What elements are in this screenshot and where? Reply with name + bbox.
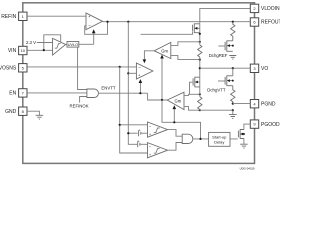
node delay input (199, 138, 201, 140)
node lower Gm bias junction (161, 99, 163, 101)
wire VOSNS rail down to window comparator (120, 67, 148, 153)
svg-text:VO: VO (261, 66, 268, 72)
svg-text:DchgREF: DchgREF (209, 53, 228, 58)
wire REFIN to buffer + input (27, 15, 86, 17)
wire upper Gm fork bottom (171, 56, 200, 60)
node PGND wire tap (232, 103, 234, 105)
wire VO line to pin (200, 67, 251, 69)
wire VIN to comparator (27, 49, 53, 51)
wire buffer feedback loop (85, 22, 108, 35)
wire lower Gm fork top (184, 94, 200, 95)
node upper comp tap (119, 124, 121, 126)
wire REFBUF rail down to window comparator (128, 22, 137, 145)
ground DchgREF (229, 56, 236, 60)
offset battery upper (128, 128, 147, 136)
svg-text:+: + (149, 153, 151, 157)
IC block outline (23, 3, 255, 164)
node EA enable on ENVTT (139, 92, 141, 94)
resistor R2 sense (sink) (198, 97, 202, 110)
svg-text:+: + (139, 128, 141, 132)
pin EN 7 (9, 89, 27, 97)
svg-text:REFIN: REFIN (1, 14, 16, 20)
comparator window lower (148, 143, 168, 158)
wire to PGND pin (233, 103, 251, 105)
wire delay to PGOOD FET gate (230, 138, 237, 140)
wire GND pin to ground (27, 111, 39, 115)
pin VIN 10 (8, 46, 27, 54)
amp Gm sink (lower, left-pointing) (167, 92, 184, 109)
wire node to ground (232, 110, 234, 114)
svg-text:Start-up: Start-up (212, 134, 227, 139)
pin REFIN 1 (1, 12, 27, 20)
svg-text:VLDOIN: VLDOIN (261, 6, 280, 12)
AND gate ENVTT (87, 89, 99, 98)
svg-text:Gm: Gm (161, 49, 168, 54)
node fork top on bus (199, 41, 201, 43)
op-amp U1 reference buffer (86, 13, 103, 30)
svg-text:ENVTT: ENVTT (101, 86, 115, 91)
node fork bottom on bus (199, 59, 201, 61)
node VIN-box junction (43, 49, 45, 51)
wire Q5 source to ground (243, 139, 245, 145)
ground PGOOD (240, 144, 248, 148)
wire R1 to VO node (199, 57, 201, 77)
svg-text:REFOUT: REFOUT (261, 20, 280, 26)
ground symbol GND pin (36, 115, 44, 119)
wire comparator to UVLO box (66, 44, 67, 46)
node lower Gm bias on rail (173, 121, 175, 123)
resistor R1 sense (source) (198, 45, 202, 57)
svg-text:VOSNS: VOSNS (0, 66, 17, 72)
svg-text:DchgVTT: DchgVTT (207, 88, 226, 93)
resistor R3 DchgVTT (231, 86, 235, 104)
svg-text:VIN: VIN (8, 48, 17, 54)
transistor Q3 DchgVTT FET (218, 68, 234, 86)
pin VOSNS 5 (0, 64, 27, 72)
comparator window upper (148, 122, 168, 137)
node buffer output (106, 21, 108, 23)
node lower fork bottom on bus (199, 109, 201, 111)
svg-text:+: + (149, 133, 151, 137)
node VO junction left (199, 67, 201, 69)
wire upper FET gate drive (141, 32, 193, 35)
wire upper comp output (168, 130, 183, 137)
wire Q1 source down (199, 24, 201, 45)
svg-text:Delay: Delay (214, 140, 224, 145)
wire VOSNS to upper comp - input (120, 124, 148, 126)
wire UVLO hysteresis box (44, 35, 61, 50)
pin GND 8 (5, 107, 27, 115)
wire ENVTT rail down-right (162, 100, 201, 139)
EA enable arrow to ENVTT (139, 83, 141, 94)
node rail junction (232, 109, 234, 111)
svg-text:EN: EN (9, 91, 16, 97)
wire REFINOK stub (80, 97, 87, 103)
op-amp EA error amplifier (136, 63, 153, 79)
wire lower Gm fork bottom (184, 106, 200, 110)
svg-text:UVLO: UVLO (68, 43, 78, 47)
node VOSNS sense tap (119, 66, 121, 68)
wire VLDOIN to bus (200, 8, 251, 23)
svg-text:GND: GND (5, 109, 17, 115)
AND gate PGOOD (182, 134, 193, 143)
amp Gm source (upper, left-pointing) (154, 42, 171, 58)
wire Q5 drain to PGOOD pin (244, 124, 250, 129)
node Q1 source/body (199, 33, 201, 35)
wire ENVTT rail to lower Gm (148, 93, 168, 100)
svg-text:REFINOK: REFINOK (70, 103, 89, 108)
resistor R4 DchgREF (231, 22, 235, 41)
wire AND output to delay (193, 138, 209, 140)
svg-text:−: − (138, 65, 141, 70)
box Start-up Delay (209, 132, 230, 146)
comparator UVLO (53, 38, 66, 55)
pin PGND 4 (250, 100, 276, 108)
wire 2.3V to comparator (37, 42, 53, 44)
wire Q4 to ground (232, 40, 234, 42)
transistor Q4 DchgREF FET (218, 41, 233, 52)
wire REFBUF branch to EA + input (128, 72, 136, 74)
transistor Q2 sink FET (190, 77, 200, 94)
wire UVLO output to buffer bias (79, 43, 94, 45)
wire ENVTT output (99, 92, 148, 94)
wire UVLO box to ENVTT gate (78, 47, 87, 89)
svg-text:UDG-04019: UDG-04019 (240, 167, 255, 171)
pin VLDOIN 2 (250, 4, 280, 12)
transistor Q5 PGOOD open drain (238, 129, 245, 139)
svg-text:−: − (88, 24, 91, 29)
node battery tap upper (127, 132, 129, 134)
transistor Q1 source FET (193, 24, 200, 34)
wire lower comp output (168, 143, 183, 151)
wires group placeholder (0, 4, 282, 128)
svg-text:2.3 V: 2.3 V (26, 40, 36, 45)
node lower fork top on bus (199, 93, 201, 95)
wire R2 bottom to PGND node (200, 109, 233, 112)
pin REFOUT 6 (250, 18, 281, 26)
node REFBUF to EA (127, 72, 129, 74)
upper Gm bias arrow from ENVTT rail (161, 59, 163, 100)
node REFOUT resistor tap (232, 21, 234, 23)
svg-text:PGOOD: PGOOD (261, 122, 280, 128)
wire upper Gm output to EA top (arrow) (144, 51, 154, 60)
wire Q2 source down (199, 77, 201, 97)
lower Gm bias arrow (173, 109, 175, 122)
node REFBUF tap (127, 21, 129, 23)
svg-text:+: + (138, 139, 140, 143)
ground power (229, 115, 237, 119)
wire VOSNS to error amp (27, 66, 136, 68)
node VO discharge tap (232, 67, 234, 69)
svg-text:10: 10 (21, 48, 26, 53)
box UVLO (67, 42, 79, 48)
offset battery lower (138, 139, 148, 147)
pin PGOOD 9 (250, 120, 280, 128)
wire EN to AND gate (27, 92, 87, 94)
buffer bias arrow from UVLO (93, 33, 95, 45)
pin VO 3 (250, 64, 268, 72)
hysteresis glyph (55, 44, 61, 49)
svg-text:Gm: Gm (175, 99, 182, 104)
svg-text:PGND: PGND (261, 101, 276, 107)
wire upper Gm fork top (171, 42, 200, 46)
wire buffer output to REFOUT (103, 21, 251, 23)
